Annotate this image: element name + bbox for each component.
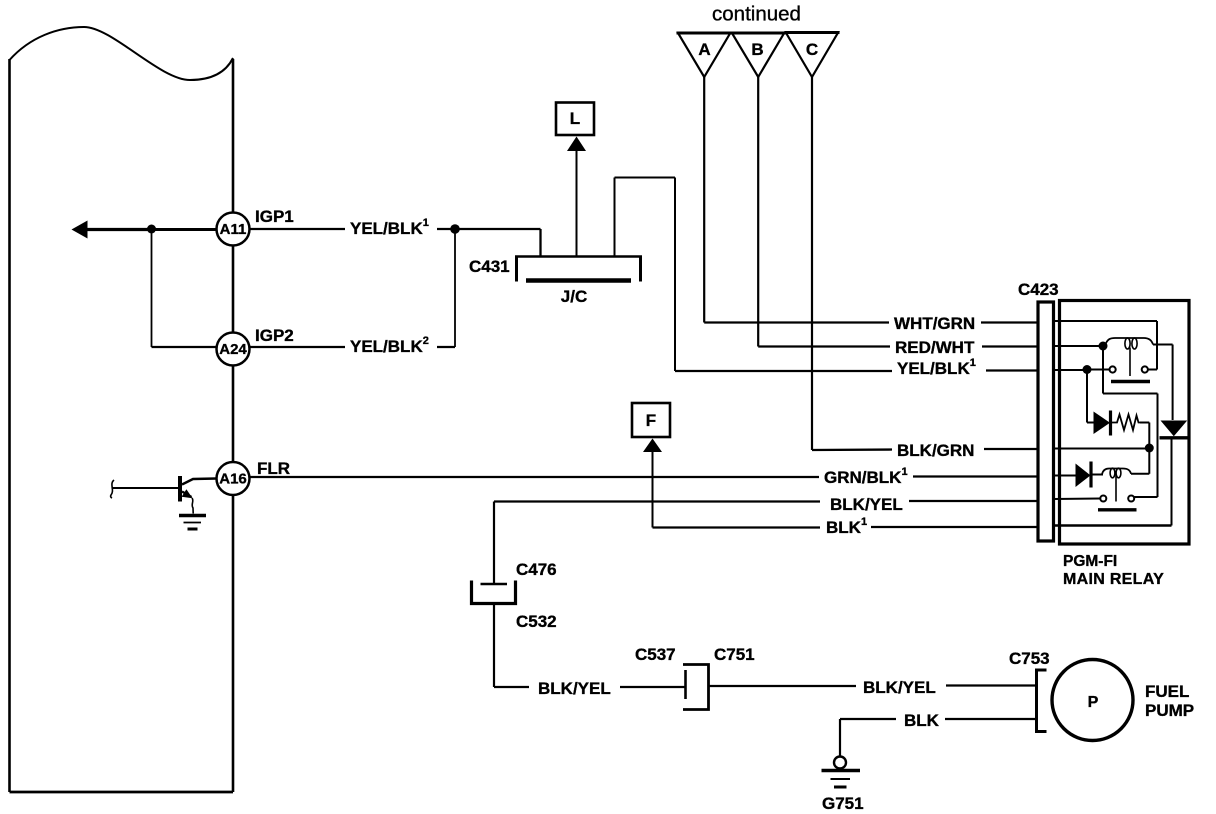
svg-text:C537: C537 [635, 645, 676, 664]
svg-text:B: B [751, 40, 763, 59]
svg-text:C431: C431 [469, 257, 510, 276]
svg-text:A: A [698, 40, 710, 59]
svg-text:BLK/YEL: BLK/YEL [863, 678, 936, 697]
svg-text:FUEL: FUEL [1145, 682, 1189, 701]
svg-text:continued: continued [712, 3, 801, 26]
svg-text:YEL/BLK1: YEL/BLK1 [350, 217, 429, 238]
svg-text:IGP1: IGP1 [255, 207, 294, 226]
svg-text:BLK: BLK [904, 711, 940, 730]
svg-text:WHT/GRN: WHT/GRN [894, 314, 975, 333]
svg-text:MAIN RELAY: MAIN RELAY [1063, 571, 1164, 588]
svg-text:A16: A16 [219, 471, 247, 488]
svg-text:J/C: J/C [561, 287, 587, 306]
svg-text:BLK/YEL: BLK/YEL [830, 495, 903, 514]
svg-text:RED/WHT: RED/WHT [895, 338, 975, 357]
svg-text:C751: C751 [714, 645, 755, 664]
svg-text:BLK1: BLK1 [826, 516, 867, 537]
svg-text:C476: C476 [516, 560, 557, 579]
svg-text:C: C [806, 40, 818, 59]
svg-text:IGP2: IGP2 [255, 326, 294, 345]
svg-text:A11: A11 [220, 221, 247, 238]
svg-text:BLK/YEL: BLK/YEL [538, 679, 611, 698]
svg-text:F: F [646, 411, 656, 430]
svg-text:GRN/BLK1: GRN/BLK1 [824, 466, 908, 487]
svg-text:PUMP: PUMP [1145, 701, 1194, 720]
svg-text:C423: C423 [1018, 280, 1059, 299]
svg-text:BLK/GRN: BLK/GRN [897, 441, 974, 460]
svg-text:A24: A24 [219, 341, 247, 358]
svg-text:FLR: FLR [257, 459, 290, 478]
svg-text:C753: C753 [1009, 649, 1050, 668]
svg-text:PGM-FI: PGM-FI [1063, 553, 1117, 570]
svg-text:YEL/BLK2: YEL/BLK2 [350, 335, 429, 356]
svg-text:G751: G751 [822, 794, 864, 813]
svg-text:C532: C532 [516, 612, 557, 631]
svg-text:P: P [1088, 694, 1099, 711]
svg-text:YEL/BLK1: YEL/BLK1 [897, 357, 976, 378]
svg-text:L: L [570, 109, 580, 128]
